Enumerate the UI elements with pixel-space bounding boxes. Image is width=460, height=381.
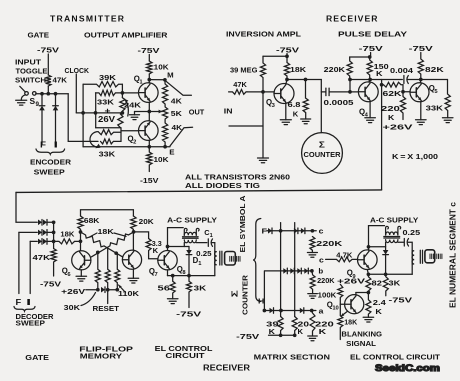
svg-text:39 MEG: 39 MEG <box>230 65 258 74</box>
svg-text:Σ: Σ <box>230 290 239 297</box>
svg-text:K: K <box>153 246 159 255</box>
resistor 220K (a) <box>310 311 315 337</box>
el core bars (right) <box>419 250 421 263</box>
wire Q10 base <box>340 303 344 305</box>
svg-text:220K: 220K <box>316 239 343 248</box>
ground (Q6) <box>76 275 87 277</box>
wire clock stem <box>75 74 77 113</box>
diode row2 a <box>38 230 42 236</box>
svg-text:I: I <box>54 141 59 150</box>
resistor 82K <box>418 53 423 80</box>
wire I branch lower <box>55 110 57 144</box>
capacitor 0.25 (right) <box>403 239 405 247</box>
resistor 56 <box>170 276 175 299</box>
resistor 18K (blanking) <box>338 304 343 339</box>
resistor 6.8K <box>303 80 308 120</box>
svg-text:BLANKING: BLANKING <box>341 329 382 338</box>
wire top rail inv <box>263 55 287 57</box>
diode row1 a <box>38 220 42 226</box>
pot arrow 24K <box>125 99 129 116</box>
leader 18K left <box>90 233 98 237</box>
svg-text:COUNTER: COUNTER <box>304 150 342 159</box>
wire rail to 0.004 <box>370 79 402 81</box>
svg-text:K: K <box>298 327 304 336</box>
diode (F encoder) <box>39 106 45 111</box>
diode rowb 1 <box>283 268 287 274</box>
resistor 3.3K <box>146 239 158 259</box>
resistor 39MEG <box>260 56 265 92</box>
wire 26V to 24K bottom <box>96 127 121 129</box>
svg-text:SWITCH: SWITCH <box>15 75 46 84</box>
wire IN coupling <box>229 125 263 127</box>
transistor Q5 <box>410 83 429 102</box>
svg-text:+26V: +26V <box>337 277 366 286</box>
svg-text:-75V: -75V <box>40 280 62 289</box>
ground (switch) <box>16 99 27 101</box>
resistor 18K (inv) <box>284 56 289 79</box>
svg-text:4K: 4K <box>171 96 183 105</box>
svg-text:OUTPUT AMPLIFIER: OUTPUT AMPLIFIER <box>84 30 168 39</box>
wire Q4 emitter <box>369 102 371 118</box>
svg-text:E: E <box>169 147 174 156</box>
wire -75V pd stem <box>370 53 372 58</box>
svg-text:b: b <box>318 266 323 275</box>
svg-text:INVERSION AMPL: INVERSION AMPL <box>226 30 301 39</box>
svg-text:EL CONTROL CIRCUIT: EL CONTROL CIRCUIT <box>350 352 440 361</box>
svg-text:33K: 33K <box>99 150 116 159</box>
svg-text:33K: 33K <box>426 103 444 112</box>
svg-text:100K: 100K <box>318 291 337 300</box>
diode rowb 4 <box>304 268 308 274</box>
resistor 24K <box>118 98 125 128</box>
wire cap to Q4 base <box>329 91 358 93</box>
wire reset stem <box>107 290 109 304</box>
wire emitter rail (Q9) <box>368 273 412 275</box>
wire right leg x121 <box>120 128 122 142</box>
resistor 3K (Q9) <box>383 274 388 296</box>
ground (Q4) <box>365 117 376 119</box>
svg-text:30K: 30K <box>64 303 81 312</box>
node rail y79 mid <box>350 79 370 81</box>
svg-text:24K: 24K <box>124 101 142 110</box>
svg-text:MEMORY: MEMORY <box>80 351 122 360</box>
resistor 10K bottom <box>147 147 152 172</box>
wire reset row <box>86 289 98 291</box>
wire -75V rail (matrix) <box>269 334 295 336</box>
diode row2 b <box>43 230 47 236</box>
resistor 4.7K <box>326 257 358 262</box>
wire row1 to node <box>48 221 54 223</box>
wire Q10 emitter diag <box>341 311 348 316</box>
switch S9 <box>25 92 29 96</box>
transistor Q3 <box>274 84 294 104</box>
ground (6.8K) <box>301 118 311 120</box>
transistor Q4 <box>358 82 378 102</box>
wire cap to EL coil <box>212 243 215 276</box>
svg-text:RESET: RESET <box>93 304 120 313</box>
resistor 220K (pd) <box>347 57 352 80</box>
diode rowb 3 <box>297 268 301 274</box>
svg-text:-75V: -75V <box>389 296 414 305</box>
svg-text:IN: IN <box>224 106 233 115</box>
wire Q7 emitter <box>132 269 134 278</box>
wire -75V ampl stem <box>148 55 150 62</box>
wire bus left corner <box>16 192 37 222</box>
svg-text:3K: 3K <box>194 284 207 293</box>
svg-text:2: 2 <box>133 140 136 146</box>
diode (I encoder) <box>53 106 59 111</box>
diode (Q9 damper) <box>383 250 389 255</box>
wire Q3 base <box>263 91 274 93</box>
wire row a <box>264 310 311 312</box>
svg-text:47K: 47K <box>233 80 247 89</box>
resistor 33K (Q5 load) <box>445 80 450 118</box>
svg-text:68K: 68K <box>84 216 100 225</box>
brace matrix <box>253 219 261 302</box>
resistor 33K lower (rowB) <box>101 139 122 144</box>
svg-text:A-C SUPPLY: A-C SUPPLY <box>167 216 217 225</box>
resistor 20K <box>131 216 136 229</box>
wire trafo2 left lead <box>385 242 387 250</box>
leader 18K right <box>114 233 126 236</box>
wire row2 <box>19 231 37 233</box>
capacitor 0.0005 <box>325 88 327 96</box>
resistor 18K cross 1 <box>81 232 123 257</box>
resistor 2.4K <box>366 293 371 318</box>
svg-text:82: 82 <box>372 279 382 288</box>
svg-text:18K: 18K <box>60 230 75 239</box>
svg-text:220K: 220K <box>317 276 335 285</box>
wire Q6 emitter <box>80 270 82 276</box>
svg-text:K: K <box>375 307 382 316</box>
wiper arrow to 5K <box>149 111 162 113</box>
wire Q5 collector <box>419 80 422 84</box>
resistor 33K upper <box>96 90 139 95</box>
wire Q4 collector <box>369 80 370 83</box>
wire F branch <box>41 94 43 106</box>
resistor 220K (c) <box>310 237 315 253</box>
wire row F end <box>312 230 316 232</box>
wire Q3 emitter <box>285 103 287 120</box>
svg-text:+: + <box>105 106 111 115</box>
wire row3 <box>30 240 37 242</box>
svg-text:220: 220 <box>381 104 400 113</box>
svg-text:220K: 220K <box>324 65 346 74</box>
el coil (left) <box>215 252 217 265</box>
node rail y79 left <box>287 79 321 81</box>
svg-text:F: F <box>16 298 22 307</box>
transformer T2 (right) <box>386 226 389 235</box>
wire trafo right to cap <box>196 242 207 244</box>
wire Q1 collector <box>148 80 150 83</box>
svg-text:9: 9 <box>36 101 40 108</box>
brace encoder <box>36 149 65 154</box>
wire Q5 emitter <box>420 102 422 120</box>
pot arrow 33K <box>90 132 100 148</box>
svg-text:82K: 82K <box>425 65 444 74</box>
diode rowF 3 <box>301 228 305 234</box>
svg-text:TRANSMITTER: TRANSMITTER <box>50 13 125 23</box>
wire cap to el coil (right) <box>408 242 412 274</box>
svg-text:K: K <box>319 327 327 336</box>
capacitor 0.004 <box>403 76 405 84</box>
wire +26V row <box>76 112 122 114</box>
wire left leg v1 <box>82 84 84 147</box>
ground (Q3) <box>280 119 291 121</box>
diode row1 b <box>43 220 47 226</box>
transistor Q6 <box>72 251 91 270</box>
svg-text:18K: 18K <box>344 318 357 327</box>
wire Q8 emitter rail <box>167 270 169 276</box>
resistor 30K <box>95 252 100 289</box>
resistor 47K (receiver) <box>229 90 247 95</box>
svg-text:18K: 18K <box>98 227 115 236</box>
wire I branch <box>55 94 57 106</box>
resistor 150K <box>367 57 372 80</box>
svg-text:39K: 39K <box>99 73 117 82</box>
wire sigma feed <box>320 80 322 133</box>
svg-text:GATE: GATE <box>28 30 50 39</box>
ground (56) <box>167 298 178 300</box>
wire gate corner <box>68 94 98 142</box>
svg-text:GATE: GATE <box>25 353 49 362</box>
svg-text:TOGGLE: TOGGLE <box>16 66 48 75</box>
svg-text:26V: 26V <box>98 115 116 124</box>
ground (220K b) <box>308 293 318 295</box>
node M rail <box>149 79 165 81</box>
svg-text:A-C SUPPLY: A-C SUPPLY <box>370 216 418 225</box>
resistor 33K upper-mid (rowA) <box>99 130 121 135</box>
node row gate <box>36 93 68 95</box>
resistor 18K (row3) <box>58 239 81 244</box>
transistor Q1 <box>139 83 159 103</box>
svg-text:+26V: +26V <box>61 287 86 296</box>
transistor Q9 <box>358 250 378 270</box>
svg-text:4.7K: 4.7K <box>336 251 353 260</box>
diode rowF 2 <box>294 228 298 234</box>
svg-text:33K: 33K <box>97 98 115 107</box>
svg-text:Σ: Σ <box>319 140 325 150</box>
svg-text:RECEIVER: RECEIVER <box>203 362 251 372</box>
svg-text:COUNTER: COUNTER <box>240 274 249 315</box>
wire 39K right leg <box>121 84 123 97</box>
svg-text:RECEIVER: RECEIVER <box>326 13 378 23</box>
wire left leg v2 <box>95 93 97 128</box>
svg-text:c: c <box>319 256 324 265</box>
wire rail to Q5 <box>408 79 448 81</box>
svg-text:110K: 110K <box>118 289 140 298</box>
diode row3 b <box>43 239 47 245</box>
wire Q8 collector riser <box>168 228 184 251</box>
ground (Q5) <box>416 119 427 121</box>
wire Q9 collector riser <box>369 226 385 251</box>
wire col1 <box>280 223 282 317</box>
svg-text:INPUT: INPUT <box>15 57 41 66</box>
wire 62K to Q5 base <box>403 85 410 92</box>
svg-text:6.8: 6.8 <box>288 100 301 109</box>
svg-text:SeekIC.com: SeekIC.com <box>375 363 440 374</box>
svg-text:EL NUMERAL SEGMENT c: EL NUMERAL SEGMENT c <box>449 201 458 308</box>
svg-text:K: K <box>376 69 383 78</box>
el lamp c <box>425 250 435 263</box>
svg-text:-15V: -15V <box>140 176 160 185</box>
svg-text:10K: 10K <box>154 155 170 164</box>
svg-text:5K: 5K <box>171 109 183 118</box>
transistor Q2 <box>139 121 159 141</box>
resistor 47K (decoder) <box>51 222 56 276</box>
svg-text:OUT: OUT <box>189 107 205 116</box>
transistor Q10 <box>345 295 364 314</box>
resistor 220K (b) <box>310 271 315 294</box>
wire -75V to 47K <box>47 54 49 75</box>
wire E output stub <box>170 127 193 146</box>
diode rowb 2 <box>290 268 294 274</box>
svg-text:I: I <box>26 298 31 307</box>
wire M output stub <box>165 80 192 95</box>
svg-text:F: F <box>40 141 46 150</box>
wire Q9 D branch <box>369 246 386 248</box>
el coil (right) <box>412 251 414 264</box>
svg-text:SWEEP: SWEEP <box>16 319 46 328</box>
resistor 10K top <box>147 61 152 74</box>
bus wire (gate to pulse delay) <box>16 190 382 193</box>
svg-text:H: H <box>258 296 264 305</box>
capacitor C1 0.25 <box>207 239 209 247</box>
resistor 20K (matrix) <box>292 317 297 336</box>
svg-text:18K: 18K <box>290 65 307 74</box>
svg-text:-75V: -75V <box>37 46 60 55</box>
wire row b <box>265 270 312 272</box>
svg-text:ALL DIODES TIG: ALL DIODES TIG <box>185 181 260 190</box>
wire trafo left lead <box>183 243 185 247</box>
svg-text:K = X 1,000: K = X 1,000 <box>392 152 438 161</box>
brace decoder <box>14 307 35 312</box>
svg-text:CLOCK: CLOCK <box>65 66 90 75</box>
diode rowF 1 <box>268 228 272 234</box>
resistor 39K (matrix) <box>278 317 283 336</box>
wire I input col <box>29 241 31 293</box>
svg-text:3K: 3K <box>389 279 401 288</box>
resistor 47K (gate) <box>46 75 51 86</box>
svg-text:EL SYMBOL A: EL SYMBOL A <box>238 195 247 253</box>
resistor chain 4K-5K-4K <box>163 80 168 147</box>
wire cap 0.0005 row <box>321 91 326 93</box>
node E rail <box>83 146 170 148</box>
svg-text:ALL TRANSISTORS 2N60: ALL TRANSISTORS 2N60 <box>185 172 290 181</box>
wire ground stub <box>135 111 150 113</box>
ground (220K c) <box>307 252 317 254</box>
el core bars (left) <box>219 251 221 265</box>
svg-text:-75V: -75V <box>409 44 434 53</box>
wire Q7 collector to 3.3K <box>134 232 149 239</box>
svg-text:-75V: -75V <box>276 46 300 55</box>
wire Q9 emitter <box>367 270 368 275</box>
svg-text:62K: 62K <box>383 89 403 98</box>
diode D1 <box>188 247 190 251</box>
svg-text:0.004: 0.004 <box>390 66 414 75</box>
wire F input col <box>18 232 20 293</box>
wire row2 to node <box>48 231 54 233</box>
wire reset row2 <box>107 289 118 291</box>
diode row3 a <box>38 239 42 245</box>
wire Q1 emitter chain <box>148 102 150 121</box>
diode rowa 2 <box>300 308 304 314</box>
wire row a end <box>312 310 316 312</box>
wire col2 <box>294 223 296 317</box>
ground (33K) <box>442 117 453 119</box>
sigma counter circle <box>302 133 343 174</box>
resistor 82 <box>366 274 371 292</box>
node Q10 collector <box>367 291 371 295</box>
transistor Q8 <box>158 251 177 270</box>
wire ff top rail <box>81 210 134 216</box>
wire row F <box>267 230 313 232</box>
leader 30K <box>81 293 96 306</box>
svg-text:PULSE DELAY: PULSE DELAY <box>338 30 407 39</box>
wire riser to bus <box>381 80 383 190</box>
svg-text:0.0005: 0.0005 <box>324 98 355 107</box>
svg-text:-75V: -75V <box>236 332 260 341</box>
ground (Q7) <box>128 277 139 279</box>
svg-text:56: 56 <box>158 284 171 293</box>
wire 220K drop <box>349 80 351 92</box>
el lamp A <box>225 252 236 266</box>
resistor 62K <box>382 82 403 87</box>
svg-text:20K: 20K <box>139 217 155 226</box>
resistor 18K cross 2 <box>91 232 133 257</box>
wire H riser <box>263 271 265 311</box>
wire -75V inv stem <box>286 54 288 57</box>
svg-text:0.25: 0.25 <box>196 249 212 258</box>
diode rowa 1 <box>270 308 274 314</box>
resistor 110K <box>115 254 120 290</box>
svg-text:K: K <box>388 113 395 122</box>
resistor 100K chain <box>338 284 343 304</box>
svg-text:-75V: -75V <box>359 44 384 53</box>
wire row3 mid <box>48 240 58 242</box>
resistor 39K <box>83 82 122 87</box>
svg-text:CIRCUIT: CIRCUIT <box>165 351 205 360</box>
svg-text:-75V: -75V <box>138 46 161 55</box>
ground (IN) <box>258 157 269 159</box>
transformer T1 (left) <box>184 228 187 235</box>
svg-text:M: M <box>167 71 174 80</box>
svg-text:+26V: +26V <box>383 123 415 132</box>
resistor 3K (Q8) <box>187 276 192 308</box>
svg-text:K: K <box>293 109 299 118</box>
ground (amplifier mid) <box>130 114 140 116</box>
svg-text:c: c <box>319 227 324 236</box>
resistor mid (ff) <box>105 248 110 290</box>
svg-text:ENCODER: ENCODER <box>30 158 72 167</box>
svg-text:0.25: 0.25 <box>403 228 422 237</box>
leader 110K <box>119 285 126 293</box>
svg-text:SIGNAL: SIGNAL <box>346 339 376 348</box>
svg-text:MATRIX SECTION: MATRIX SECTION <box>254 352 330 361</box>
ground (2.4K) <box>363 316 374 318</box>
diode (reset) <box>101 287 105 293</box>
wire Q2 collector <box>148 140 150 146</box>
svg-text:SWEEP: SWEEP <box>34 167 65 176</box>
wire Q3 collector <box>286 80 287 85</box>
resistor 220K (Q5) <box>400 92 405 120</box>
wire D1 branch <box>168 246 190 248</box>
ground (220K a) <box>308 335 318 337</box>
transistor Q7 <box>122 250 141 269</box>
svg-text:2.4: 2.4 <box>373 298 387 307</box>
svg-text:1: 1 <box>210 233 213 239</box>
resistor 68K <box>78 216 83 229</box>
